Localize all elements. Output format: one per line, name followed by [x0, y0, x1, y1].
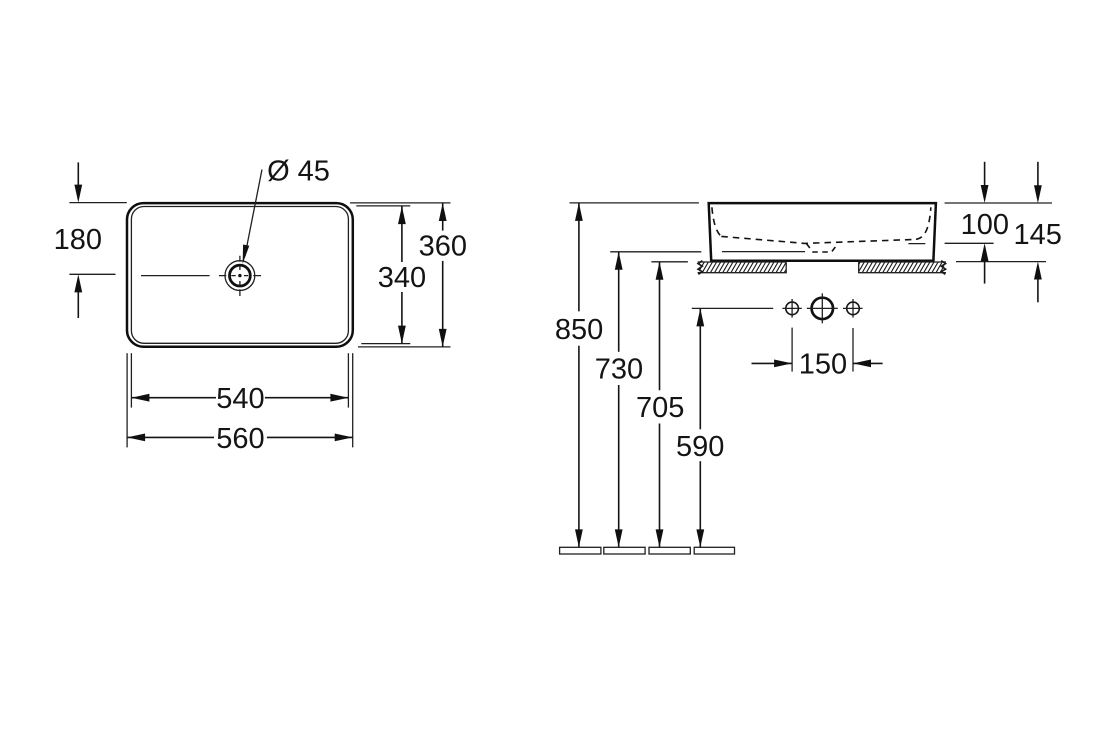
dim 540 extension right: [347, 353, 349, 407]
dim 360 extension top: [350, 202, 451, 204]
dim 540 line right: [265, 397, 349, 399]
hole middle circle: [812, 298, 833, 319]
drain crosshair horizontal: [219, 275, 261, 277]
dim 180 up arrow: [74, 274, 82, 292]
dim 340 line upper: [401, 206, 403, 262]
dim 540 left arrow: [131, 394, 149, 402]
dim 180 lower line: [77, 291, 79, 318]
extension line hole centerline: [692, 307, 773, 309]
drain crosshair vertical: [239, 256, 241, 296]
extension line basin top right: [945, 202, 1052, 204]
svg-text:180: 180: [54, 224, 102, 256]
countertop break mark left: [698, 261, 702, 275]
dim 360 up arrow: [439, 203, 447, 221]
countertop hatch left: [694, 262, 790, 273]
svg-text:540: 540: [216, 383, 264, 415]
drain outer circle: [225, 261, 255, 291]
dim 150 line left: [752, 362, 793, 364]
svg-text:150: 150: [799, 349, 847, 381]
dim 730 line upper: [618, 252, 620, 352]
dim 590 line upper: [699, 308, 701, 429]
drain hole: [230, 265, 251, 286]
dim 145 upper line: [1037, 162, 1039, 186]
dim 360 line lower: [442, 261, 444, 347]
recess bottom line left: [722, 251, 805, 253]
extension line basin top left: [570, 202, 699, 204]
dim 150 extension left: [791, 328, 793, 372]
side view inner profile left curve dashed: [712, 207, 721, 236]
svg-text:145: 145: [1014, 219, 1062, 251]
floor mark 1: [560, 547, 601, 554]
hole middle crosshair: [807, 307, 838, 309]
dim 730 down arrow: [615, 529, 623, 547]
side view inner bottom dashed: [721, 236, 916, 243]
dim 705 down arrow: [656, 529, 664, 547]
dim 540 line left: [131, 397, 216, 399]
dim 180 extension line top: [69, 202, 126, 204]
extension line inner bottom right: [945, 242, 994, 244]
dim 560 line left: [127, 436, 214, 438]
dim 590 up arrow: [696, 308, 704, 326]
top view inner rim: [131, 207, 348, 344]
dim 590 line lower: [699, 461, 701, 547]
dim 340 line lower: [401, 292, 403, 344]
dim 100 upper line: [984, 162, 986, 186]
countertop hatch right: [854, 262, 946, 273]
dim 340 extension top: [356, 205, 410, 207]
dim 850 line lower: [578, 346, 580, 548]
dim 560 extension left: [126, 353, 128, 447]
dim 705 line lower: [659, 424, 661, 548]
dim 705 up arrow: [656, 262, 664, 280]
dim 100 down arrow: [981, 185, 989, 203]
svg-text:100: 100: [961, 209, 1009, 241]
dim 540 right arrow: [330, 394, 348, 402]
dim 360 extension bottom: [358, 346, 451, 348]
dim 150 line right: [853, 362, 883, 364]
dim 150 left-pointing arrow: [853, 360, 871, 368]
extension line 705: [651, 261, 688, 263]
dim 360 line upper: [442, 203, 444, 231]
svg-text:340: 340: [378, 262, 426, 294]
dim 560 right arrow: [335, 434, 353, 442]
dim 360 down arrow: [439, 329, 447, 347]
leader line to drain: [245, 170, 262, 257]
svg-text:850: 850: [555, 314, 603, 346]
dim 150 extension right: [852, 328, 854, 372]
dim 180 upper line: [77, 162, 79, 186]
floor mark 3: [649, 547, 690, 554]
hole right circle: [847, 302, 860, 315]
dim 560 left arrow: [127, 434, 145, 442]
dim 100 up arrow: [981, 243, 989, 261]
drain recess dip dashed: [807, 244, 839, 253]
extension line 730: [610, 251, 701, 253]
dim 730 line lower: [618, 385, 620, 547]
recess bottom line right: [908, 243, 925, 245]
dim 590 down arrow: [696, 529, 704, 547]
top view outer rim: [127, 203, 353, 347]
dim 340 extension bottom: [361, 343, 410, 345]
side view basin outline: [709, 203, 936, 261]
svg-text:705: 705: [636, 392, 684, 424]
svg-text:Ø 45: Ø 45: [267, 155, 330, 187]
dim 150 right-pointing arrow: [774, 360, 792, 368]
hole left crosshair: [782, 307, 801, 309]
dim 145 up arrow: [1034, 262, 1042, 280]
svg-text:730: 730: [595, 354, 643, 386]
drain center dot: [238, 274, 241, 277]
dim 180 extension line bottom: [69, 273, 115, 275]
leader arrowhead: [243, 245, 250, 265]
countertop break mark right: [941, 261, 945, 275]
svg-text:360: 360: [419, 231, 467, 263]
floor mark 2: [604, 547, 645, 554]
dim 340 down arrow: [398, 326, 406, 344]
dim 145 down arrow: [1034, 185, 1042, 203]
dim 540 extension left: [130, 353, 132, 407]
floor mark 4: [694, 547, 734, 554]
hole left circle: [786, 302, 799, 315]
dim 180 down arrow: [74, 185, 82, 203]
svg-text:560: 560: [216, 423, 264, 455]
dim 850 down arrow: [575, 529, 583, 547]
dim 850 up arrow: [575, 203, 583, 221]
side view inner profile right curve dashed: [916, 207, 931, 239]
dim 560 extension right: [352, 353, 354, 447]
drain centerline left: [141, 275, 210, 277]
dim 560 line right: [267, 436, 353, 438]
dim 100 lower line: [984, 261, 986, 284]
extension line counter top right: [956, 261, 1046, 263]
dim 340 up arrow: [398, 206, 406, 224]
svg-text:590: 590: [676, 431, 724, 463]
dim 850 line upper: [578, 203, 580, 311]
hole right crosshair: [843, 307, 863, 309]
dim 705 line upper: [659, 262, 661, 391]
dim 730 up arrow: [615, 252, 623, 270]
dim 145 lower line: [1037, 279, 1039, 302]
